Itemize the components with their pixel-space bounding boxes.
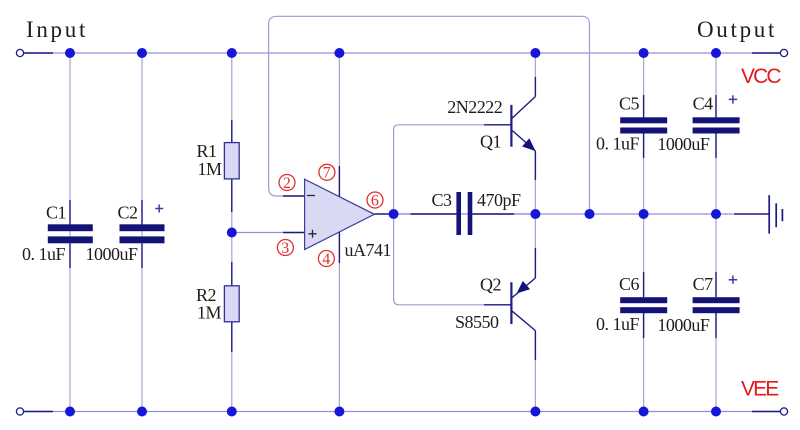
pin 6 label [367, 192, 383, 209]
capacitor C3 [394, 190, 536, 235]
junction bottom rail x=535.4 [530, 407, 540, 417]
junction mid x=589.5 [585, 209, 595, 219]
svg-text:VEE: VEE [741, 378, 779, 401]
wire op-amp supply pin 4 [338, 232, 340, 412]
svg-text:1M: 1M [197, 303, 222, 323]
svg-text:0. 1uF: 0. 1uF [596, 314, 640, 334]
junction top rail x=643.6 [639, 48, 649, 58]
wire bottom-left terminal stub [23, 411, 53, 413]
svg-text:Q1: Q1 [480, 132, 501, 152]
junction R divider node [227, 228, 237, 238]
svg-text:VCC: VCC [741, 65, 781, 88]
svg-text:C3: C3 [432, 190, 453, 210]
junction mid x=716 [711, 209, 721, 219]
svg-text:2: 2 [283, 175, 291, 192]
svg-text:7: 7 [323, 165, 331, 182]
transistor Q1 2N2222 [447, 53, 535, 214]
svg-text:uA741: uA741 [345, 240, 392, 260]
junction bottom rail x=70 [65, 407, 75, 417]
wire Q2 base drive [394, 214, 512, 305]
svg-text:2N2222: 2N2222 [447, 97, 502, 117]
wire bottom-right terminal stub [752, 411, 781, 413]
ground [734, 195, 783, 234]
capacitor C6 [596, 214, 667, 412]
wire op-amp inverting input stub [283, 195, 304, 197]
op-amp U1 uA741 [305, 179, 391, 260]
svg-text:1000uF: 1000uF [86, 244, 139, 264]
svg-text:6: 6 [371, 192, 379, 209]
wire top rail [20, 52, 784, 54]
transistor Q2 S8550 [455, 214, 535, 412]
wire C1 branch [69, 53, 71, 412]
junction bottom rail x=716 [711, 407, 721, 417]
wire op-amp output [374, 213, 393, 215]
svg-text:1000uF: 1000uF [657, 315, 710, 335]
svg-text:C5: C5 [619, 94, 640, 114]
svg-text:R1: R1 [197, 141, 217, 161]
bottom-right terminal [780, 408, 787, 415]
input terminal [16, 49, 23, 56]
svg-text:Input: Input [26, 17, 88, 42]
svg-text:C1: C1 [46, 203, 66, 223]
junction mid x=535.4 [530, 209, 540, 219]
pin 4 label [318, 251, 334, 268]
svg-text:Q2: Q2 [480, 275, 501, 295]
wire C2 branch [141, 53, 143, 412]
svg-text:C6: C6 [619, 274, 640, 294]
svg-text:0. 1uF: 0. 1uF [22, 244, 66, 264]
wire bottom rail [20, 411, 784, 413]
svg-text:1M: 1M [198, 159, 223, 179]
capacitor C4 [657, 53, 739, 214]
svg-text:0. 1uF: 0. 1uF [596, 134, 640, 154]
capacitor C2 [86, 200, 165, 268]
svg-text:S8550: S8550 [455, 312, 499, 332]
bottom-left terminal [16, 408, 23, 415]
wire op-amp non-inverting input [232, 232, 304, 234]
junction bottom rail x=231.8 [227, 407, 237, 417]
svg-text:Output: Output [697, 17, 777, 42]
junction top rail x=70 [65, 48, 75, 58]
capacitor C1 [22, 200, 93, 268]
junction top rail x=716 [711, 48, 721, 58]
junction bottom rail x=339.4 [334, 407, 344, 417]
junction top rail x=142 [137, 48, 147, 58]
junction op-amp output node [389, 209, 399, 219]
wire R branch [231, 53, 233, 412]
wire op-amp supply pin 7 [338, 53, 340, 197]
svg-text:4: 4 [322, 251, 330, 268]
junction mid x=643.6 [639, 209, 649, 219]
junction bottom rail x=643.6 [639, 407, 649, 417]
output terminal [780, 49, 787, 56]
svg-text:C4: C4 [693, 94, 714, 114]
svg-text:1000uF: 1000uF [657, 134, 710, 154]
junction top rail x=231.8 [227, 48, 237, 58]
wire top-right terminal stub [752, 52, 781, 54]
wire feedback loop [269, 16, 590, 214]
pin 7 label [319, 164, 335, 181]
capacitor C5 [596, 53, 667, 214]
wire top-left terminal stub [23, 52, 53, 54]
svg-text:C2: C2 [118, 203, 138, 223]
resistor R2 [196, 262, 239, 352]
wire mid node line [394, 213, 733, 215]
junction top rail x=339.4 [334, 48, 344, 58]
pin 3 label [277, 240, 293, 257]
svg-text:3: 3 [281, 240, 289, 257]
junction bottom rail x=142 [137, 407, 147, 417]
pin 2 label [279, 175, 295, 192]
junction top rail x=535.4 [530, 48, 540, 58]
resistor R1 [197, 120, 240, 212]
wire Q1 base drive [394, 125, 512, 214]
svg-text:C7: C7 [693, 274, 714, 294]
svg-text:470pF: 470pF [477, 190, 521, 210]
capacitor C7 [657, 214, 739, 412]
